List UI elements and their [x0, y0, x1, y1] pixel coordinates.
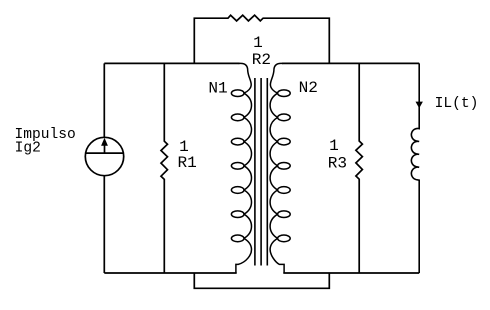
svg-text:N2: N2: [299, 79, 318, 97]
svg-text:1: 1: [329, 137, 339, 155]
svg-text:R2: R2: [252, 51, 271, 69]
svg-text:R1: R1: [178, 154, 197, 172]
svg-text:N1: N1: [208, 80, 227, 98]
svg-text:Ig2: Ig2: [15, 140, 41, 156]
svg-text:1: 1: [253, 34, 263, 52]
svg-text:IL(t): IL(t): [435, 96, 479, 112]
svg-text:R3: R3: [328, 155, 347, 173]
